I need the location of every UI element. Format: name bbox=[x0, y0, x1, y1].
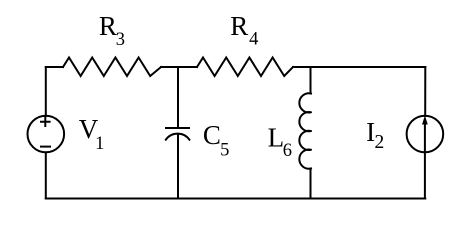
voltage source V1 circle bbox=[28, 116, 65, 153]
wire top-left segment bbox=[46, 66, 63, 68]
capacitor C5 top plate bbox=[166, 127, 189, 129]
V1 plus sign bbox=[41, 118, 50, 126]
svg-text:C: C bbox=[203, 120, 221, 150]
wire L6 branch lower bbox=[310, 169, 312, 199]
wire left rail lower bbox=[45, 153, 47, 199]
current source I2 circle bbox=[407, 116, 444, 153]
wire right rail lower bbox=[424, 152, 426, 198]
wire C5 branch lower bbox=[177, 134, 179, 199]
V1 minus sign bbox=[41, 146, 50, 148]
inductor L6 coil bbox=[299, 93, 311, 168]
wire C5 branch upper bbox=[177, 67, 179, 128]
wire R3 to node A bbox=[161, 66, 178, 68]
svg-text:2: 2 bbox=[375, 132, 385, 153]
capacitor C5 bottom curved plate bbox=[166, 134, 190, 140]
svg-text:1: 1 bbox=[95, 134, 104, 154]
I2 arrow head bbox=[422, 116, 428, 125]
svg-text:6: 6 bbox=[283, 141, 292, 161]
svg-text:3: 3 bbox=[116, 30, 125, 50]
svg-text:R: R bbox=[230, 11, 248, 41]
svg-text:5: 5 bbox=[220, 141, 229, 161]
resistor R4 bbox=[197, 58, 293, 77]
wire L6 branch upper bbox=[310, 67, 312, 94]
wire bottom bbox=[46, 198, 426, 200]
svg-text:4: 4 bbox=[249, 30, 258, 50]
wire node B to top-right corner bbox=[311, 66, 426, 68]
I2 arrow shaft bbox=[424, 120, 426, 152]
svg-text:R: R bbox=[99, 11, 117, 41]
resistor R3 bbox=[63, 58, 161, 77]
wire right rail upper bbox=[424, 67, 426, 116]
wire left rail upper bbox=[45, 67, 47, 116]
wire node A to R4 bbox=[178, 66, 197, 68]
wire R4 to node B bbox=[293, 66, 311, 68]
svg-text:L: L bbox=[268, 123, 285, 153]
